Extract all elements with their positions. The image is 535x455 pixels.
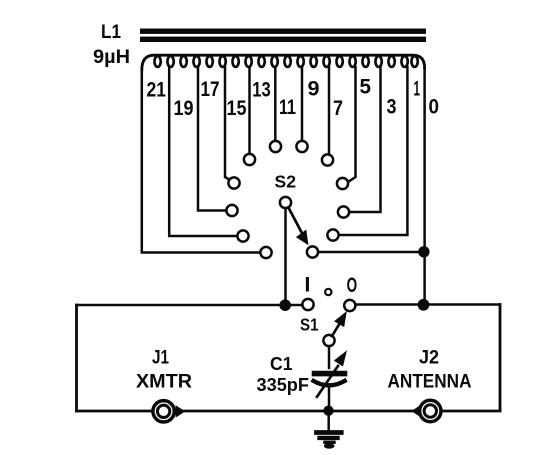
wire S2 pivot to box top: [284, 208, 287, 305]
svg-text:19: 19: [174, 97, 194, 120]
bottom box bottom wire: [77, 410, 501, 413]
wire tap 15: [225, 67, 230, 180]
inductor L1 core bar bottom: [140, 37, 426, 42]
S2 contact 3: [338, 206, 349, 217]
tap number 11: [279, 96, 296, 119]
S2 contact 11: [270, 141, 281, 152]
svg-text:S1: S1: [300, 315, 319, 335]
svg-text:17: 17: [201, 78, 220, 101]
connector J1 label: [152, 348, 169, 369]
S2 contact 9: [296, 141, 307, 152]
wire tap 17: [198, 67, 225, 211]
wire C1 to bottom wire: [328, 386, 331, 412]
tap number 7: [333, 97, 343, 120]
S2 contact 5: [337, 178, 348, 189]
tap number 5: [360, 76, 372, 99]
svg-text:11: 11: [279, 96, 296, 119]
S2 contact 19: [237, 230, 248, 241]
connector J2 symbol: [420, 400, 441, 421]
capacitor C1 label: [270, 354, 293, 374]
switch S1 common contact: [323, 335, 334, 346]
junction tap0 to box: [418, 299, 430, 311]
svg-text:5: 5: [360, 76, 372, 99]
S2 contact 15: [228, 177, 239, 188]
switch S2 pivot: [280, 197, 291, 208]
wire tap 0 (right outline down to box): [423, 66, 426, 305]
tap number 15: [227, 97, 247, 120]
connector J1 symbol: [153, 401, 174, 422]
switch S1 center-off contact: [325, 289, 331, 295]
capacitor C1 top plate: [315, 371, 345, 377]
wire junction to ground: [327, 411, 330, 431]
ground symbol: [317, 430, 342, 435]
switch S1 label O: [347, 274, 358, 297]
S2 contact 17: [226, 205, 237, 216]
inductor L1 winding top conductor: [142, 55, 425, 70]
tap number 19: [174, 97, 194, 120]
switch S1 contact I: [302, 299, 313, 310]
tap number 1: [414, 78, 421, 101]
switch S2 label: [275, 172, 297, 192]
capacitor C1 bottom plate (curved): [314, 381, 345, 386]
inductor L1 label: [101, 22, 121, 43]
tap number 17: [201, 78, 220, 101]
svg-text:C1: C1: [270, 354, 293, 374]
wire tap 1: [340, 67, 408, 235]
inductor L1 winding loops: [154, 56, 417, 67]
connector J2 name ANTENNA: [388, 371, 472, 393]
svg-text:3: 3: [387, 96, 397, 119]
S2 contact 0: [307, 246, 318, 257]
svg-text:0: 0: [429, 96, 440, 119]
svg-text:XMTR: XMTR: [136, 371, 192, 393]
capacitor C1 value 335pF: [257, 375, 310, 395]
switch S1 label I: [305, 274, 311, 297]
wire tap 7: [328, 67, 331, 154]
S2 contact 13: [244, 154, 255, 165]
S2 contact 21: [260, 247, 271, 258]
svg-text:15: 15: [227, 97, 247, 120]
svg-text:9µH: 9µH: [93, 46, 130, 68]
svg-text:I: I: [305, 274, 311, 297]
tap number 3: [387, 96, 397, 119]
tap number 0: [429, 96, 440, 119]
inductor L1 core bar top: [140, 29, 426, 34]
svg-text:1: 1: [414, 78, 421, 101]
junction tap0/wiper wire: [418, 246, 429, 257]
wire tap 21: [142, 68, 260, 253]
svg-text:9: 9: [308, 78, 320, 101]
svg-text:21: 21: [147, 79, 167, 102]
svg-text:335pF: 335pF: [257, 375, 310, 395]
junction S2 to box: [279, 299, 291, 311]
svg-text:L1: L1: [101, 22, 121, 43]
switch S1 wiper arm with arrowhead: [332, 324, 339, 336]
svg-text:S2: S2: [275, 172, 297, 192]
tap number 13: [252, 79, 270, 102]
svg-text:13: 13: [252, 79, 270, 102]
switch S2 wiper arm with arrowhead: [288, 207, 303, 236]
wire tap 19: [169, 67, 236, 236]
capacitor C1 variable arrow: [317, 366, 338, 397]
connector J2 label: [419, 348, 439, 369]
S2 contact 7: [322, 154, 333, 165]
switch S1 label: [300, 315, 319, 335]
switch S1 contact O: [344, 300, 355, 311]
svg-text:J1: J1: [152, 348, 169, 369]
svg-text:J2: J2: [419, 348, 439, 369]
connector J1 name XMTR: [136, 371, 192, 393]
wire tap 5: [350, 67, 356, 181]
tap number 9: [308, 78, 320, 101]
tap number 21: [147, 79, 167, 102]
wire S1 common to C1: [328, 346, 331, 368]
wire tap 3: [350, 67, 381, 212]
bottom box top wire (with S1 gap): [77, 304, 303, 307]
bottom box right wire: [499, 305, 502, 411]
svg-text:O: O: [347, 274, 358, 297]
wire tap 9: [301, 67, 304, 140]
svg-text:7: 7: [333, 97, 343, 120]
svg-text:ANTENNA: ANTENNA: [388, 371, 472, 393]
bottom box left wire: [75, 305, 78, 411]
wire tap 13: [248, 67, 251, 153]
wire tap 11: [274, 67, 277, 140]
S2 contact 1: [327, 229, 338, 240]
value label 9uH: [93, 46, 130, 68]
junction C1 to bottom wire: [323, 406, 333, 416]
wire from S2 wiper contact to tap-0 line: [319, 251, 425, 254]
